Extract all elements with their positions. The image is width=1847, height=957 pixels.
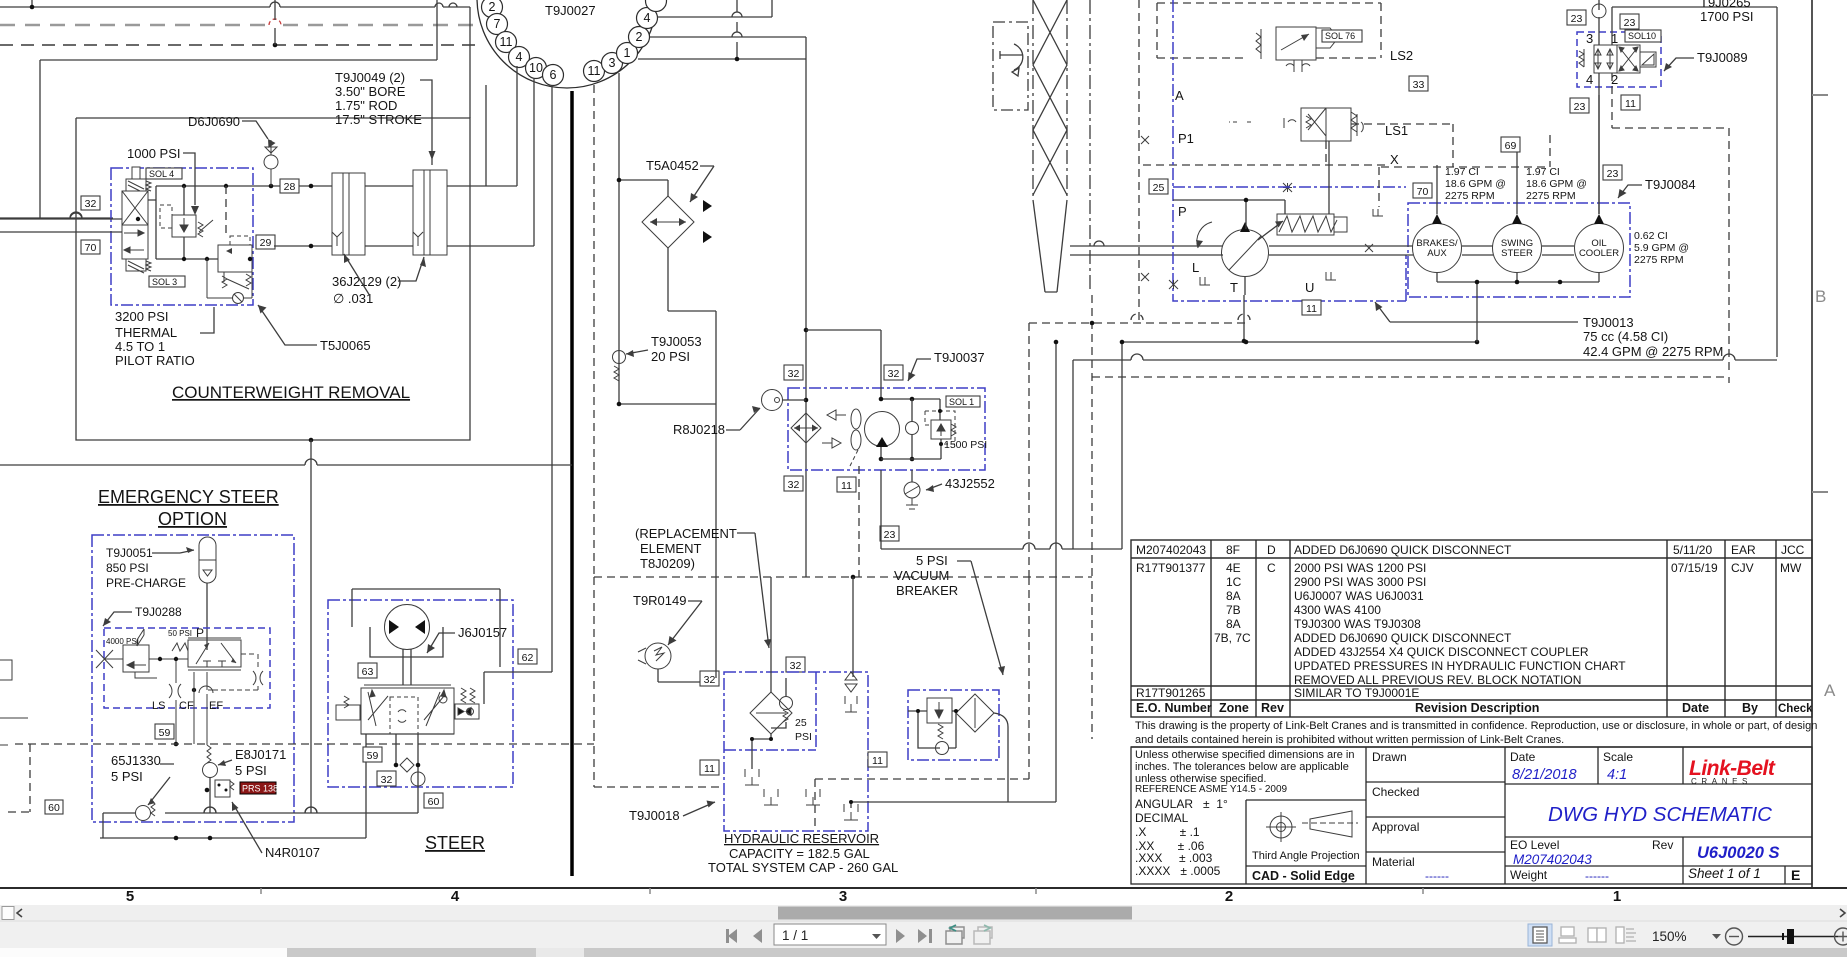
svg-text:T9J0037: T9J0037 [934,350,985,365]
svg-text:4: 4 [451,888,460,905]
svg-text:T9J0049 (2): T9J0049 (2) [335,70,405,85]
svg-text:2275 RPM: 2275 RPM [1634,254,1684,266]
svg-text:ADDED 43J2554 X4 QUICK DISCONN: ADDED 43J2554 X4 QUICK DISCONNECT COUPLE… [1294,645,1589,659]
svg-text:Material: Material [1372,855,1415,869]
svg-text:1700 PSI: 1700 PSI [1700,9,1754,24]
svg-text:N4R0107: N4R0107 [265,845,320,860]
svg-text:7B: 7B [1226,603,1241,617]
svg-text:8A: 8A [1226,617,1241,631]
svg-text:CF: CF [179,700,194,712]
svg-text:PRE-CHARGE: PRE-CHARGE [106,576,186,590]
svg-text:10: 10 [529,61,543,75]
svg-text:Date: Date [1682,701,1709,715]
svg-text:17.5" STROKE: 17.5" STROKE [335,112,422,127]
svg-text:42.4 GPM @ 2275 RPM: 42.4 GPM @ 2275 RPM [1583,344,1723,359]
svg-text:UPDATED PRESSURES IN HYDRAULIC: UPDATED PRESSURES IN HYDRAULIC FUNCTION … [1294,659,1626,673]
svg-text:LS: LS [152,700,165,712]
svg-text:D6J0690: D6J0690 [188,114,240,129]
svg-text:T9J0084: T9J0084 [1645,177,1696,192]
svg-text:T9J0288: T9J0288 [135,605,182,619]
svg-text:R17T901377: R17T901377 [1136,561,1206,575]
svg-text:Check: Check [1778,703,1813,715]
svg-text:Revision Description: Revision Description [1415,701,1539,715]
svg-text:Checked: Checked [1372,785,1419,799]
svg-text:5: 5 [126,888,134,905]
svg-text:LS2: LS2 [1390,48,1413,63]
svg-text:CAPACITY = 182.5 GAL: CAPACITY = 182.5 GAL [729,846,870,861]
svg-text:Rev: Rev [1652,838,1673,852]
svg-text:1C: 1C [1226,575,1242,589]
svg-text:.X ± .1: .X ± .1 [1135,825,1200,839]
svg-text:SOL 4: SOL 4 [149,169,174,179]
svg-text:Weight: Weight [1510,868,1548,882]
svg-text:T9R0149: T9R0149 [633,593,686,608]
svg-text:CRANES: CRANES [1691,777,1752,786]
svg-text:5.9 GPM @: 5.9 GPM @ [1634,242,1689,254]
svg-text:32: 32 [788,479,800,491]
svg-text:6: 6 [550,68,557,82]
svg-text:T9J0089: T9J0089 [1697,50,1748,65]
svg-text:ADDED D6J0690 QUICK DISCONNECT: ADDED D6J0690 QUICK DISCONNECT [1294,631,1512,645]
svg-text:4: 4 [516,50,523,64]
svg-text:DECIMAL: DECIMAL [1135,811,1189,825]
svg-text:18.6 GPM @: 18.6 GPM @ [1526,178,1587,190]
svg-text:11: 11 [841,480,852,492]
svg-text:5/11/20: 5/11/20 [1673,543,1712,557]
svg-text:75 cc (4.58 CI): 75 cc (4.58 CI) [1583,329,1668,344]
svg-text:11: 11 [872,755,883,767]
svg-text:4: 4 [644,11,651,25]
svg-text:------: ------ [1425,869,1449,883]
svg-text:Unless otherwise specified dim: Unless otherwise specified dimensions ar… [1135,749,1355,761]
svg-text:69: 69 [1505,140,1517,152]
svg-text:SOL 76: SOL 76 [1325,31,1355,41]
svg-text:(REPLACEMENT: (REPLACEMENT [635,526,737,541]
svg-text:11: 11 [704,763,715,775]
svg-text:PILOT RATIO: PILOT RATIO [115,353,195,368]
svg-text:ELEMENT: ELEMENT [640,541,701,556]
svg-text:C: C [1267,561,1276,575]
svg-text:23: 23 [884,529,896,541]
svg-text:43J2552: 43J2552 [945,476,995,491]
svg-text:1.75" ROD: 1.75" ROD [335,98,397,113]
svg-text:07/15/19: 07/15/19 [1671,561,1718,575]
svg-text:23: 23 [1624,17,1636,29]
svg-text:DWG HYD SCHEMATIC: DWG HYD SCHEMATIC [1548,803,1772,826]
svg-text:VACUUM: VACUUM [894,568,949,583]
svg-text:R17T901265: R17T901265 [1136,686,1206,700]
svg-text:COOLER: COOLER [1579,248,1619,259]
svg-text:Date: Date [1510,750,1536,764]
svg-text:3.50" BORE: 3.50" BORE [335,84,406,99]
svg-text:T9J0027: T9J0027 [545,3,596,18]
svg-text:STEER: STEER [1501,248,1533,259]
svg-text:STEER: STEER [425,833,485,853]
svg-text:1: 1 [624,46,631,60]
svg-text:EO Level: EO Level [1510,838,1559,852]
svg-text:33: 33 [1413,79,1425,91]
svg-text:D: D [1267,543,1276,557]
svg-text:60: 60 [428,796,440,808]
svg-text:62: 62 [522,652,534,664]
svg-text:2: 2 [1225,888,1233,905]
svg-text:3: 3 [839,888,847,905]
svg-text:BREAKER: BREAKER [896,583,958,598]
svg-text:70: 70 [1417,186,1429,198]
svg-text:Zone: Zone [1219,701,1249,715]
svg-text:T5J0065: T5J0065 [320,338,371,353]
svg-text:Sheet 1 of 1: Sheet 1 of 1 [1688,866,1761,881]
svg-text:TOTAL SYSTEM CAP - 260 GAL: TOTAL SYSTEM CAP - 260 GAL [708,860,898,875]
svg-text:E: E [1791,867,1800,883]
svg-text:70: 70 [85,242,97,254]
svg-text:Scale: Scale [1603,750,1633,764]
svg-text:23: 23 [1571,13,1583,25]
svg-text:Rev: Rev [1261,701,1284,715]
svg-text:2000 PSI WAS 1200 PSI: 2000 PSI WAS 1200 PSI [1294,561,1426,575]
svg-text:850 PSI: 850 PSI [106,561,149,575]
svg-text:HYDRAULIC RESERVOIR: HYDRAULIC RESERVOIR [724,831,879,846]
svg-text:T9J0300 WAS T9J0308: T9J0300 WAS T9J0308 [1294,617,1421,631]
svg-text:CAD - Solid Edge: CAD - Solid Edge [1252,869,1355,883]
svg-text:18.6 GPM @: 18.6 GPM @ [1445,178,1506,190]
svg-text:REMOVED ALL PREVIOUS REV. BLOC: REMOVED ALL PREVIOUS REV. BLOCK NOTATION [1294,673,1581,687]
svg-text:25: 25 [795,717,807,729]
svg-text:------: ------ [1585,869,1609,883]
svg-text:ANGULAR ± 1°: ANGULAR ± 1° [1135,797,1228,811]
svg-text:3: 3 [1586,31,1593,46]
svg-text:11: 11 [1625,98,1636,110]
svg-text:∅ .031: ∅ .031 [333,291,373,306]
svg-text:36J2129 (2): 36J2129 (2) [332,274,401,289]
svg-text:1000 PSI: 1000 PSI [127,146,181,161]
svg-text:U: U [1305,280,1314,295]
svg-text:T9J0053: T9J0053 [651,334,702,349]
svg-text:T9J0018: T9J0018 [629,808,680,823]
svg-text:MW: MW [1780,561,1802,575]
svg-text:1500 PSI: 1500 PSI [944,439,987,451]
svg-text:3200 PSI: 3200 PSI [115,309,169,324]
svg-text:SOL10: SOL10 [1628,31,1656,41]
svg-text:U6J0007 WAS U6J0031: U6J0007 WAS U6J0031 [1294,589,1424,603]
svg-text:U6J0020 S: U6J0020 S [1697,844,1780,862]
svg-text:and details contained herein i: and details contained herein is prohibit… [1135,734,1564,746]
svg-text:8A: 8A [1226,589,1241,603]
svg-text:11: 11 [588,64,601,78]
svg-text:1.97 CI: 1.97 CI [1526,166,1560,178]
svg-text:SIMILAR TO T9J0001E: SIMILAR TO T9J0001E [1294,686,1419,700]
svg-text:E8J0171: E8J0171 [235,747,286,762]
svg-text:150%: 150% [1652,929,1687,944]
svg-text:28: 28 [284,181,296,193]
svg-text:0.62 CI: 0.62 CI [1634,230,1668,242]
svg-text:7B, 7C: 7B, 7C [1214,631,1251,645]
svg-text:T9J0013: T9J0013 [1583,315,1634,330]
svg-text:4300 WAS 4100: 4300 WAS 4100 [1294,603,1381,617]
svg-text:EF: EF [209,700,223,712]
svg-text:11: 11 [1306,303,1317,315]
svg-text:32: 32 [85,198,97,210]
svg-text:AUX: AUX [1427,248,1447,259]
svg-text:63: 63 [362,666,374,678]
svg-text:8/21/2018: 8/21/2018 [1512,767,1577,783]
svg-text:.XXX ± .003: .XXX ± .003 [1135,851,1213,865]
svg-text:65J1330: 65J1330 [111,753,161,768]
svg-text:.XXXX ± .0005: .XXXX ± .0005 [1135,864,1221,878]
svg-text:50 PSI: 50 PSI [168,629,192,638]
svg-text:E.O. Number: E.O. Number [1136,701,1212,715]
svg-text:4E: 4E [1226,561,1241,575]
svg-text:3: 3 [609,56,616,70]
svg-text:1: 1 [1613,888,1621,905]
svg-text:T8J0209): T8J0209) [640,556,695,571]
svg-text:20 PSI: 20 PSI [651,349,690,364]
svg-text:CJV: CJV [1731,561,1754,575]
svg-text:A: A [1824,681,1836,700]
svg-text:T5A0452: T5A0452 [646,158,699,173]
svg-text:29: 29 [260,237,272,249]
svg-text:This drawing is the property o: This drawing is the property of Link-Bel… [1135,720,1817,732]
svg-text:A: A [1175,88,1184,103]
svg-text:2275 RPM: 2275 RPM [1445,190,1495,202]
svg-text:60: 60 [48,802,60,814]
svg-text:7: 7 [494,17,501,31]
svg-text:Third Angle Projection: Third Angle Projection [1252,850,1360,862]
svg-text:32: 32 [788,368,800,380]
svg-text:M207402043: M207402043 [1136,543,1206,557]
svg-text:23: 23 [1607,168,1619,180]
svg-text:25: 25 [1153,182,1165,194]
svg-text:1.97 CI: 1.97 CI [1445,166,1479,178]
svg-text:5 PSI: 5 PSI [916,553,948,568]
svg-text:5 PSI: 5 PSI [111,769,143,784]
svg-text:EAR: EAR [1731,543,1756,557]
svg-text:PRS 138: PRS 138 [242,784,278,794]
svg-text:11: 11 [500,35,513,49]
svg-text:X: X [1390,152,1399,167]
svg-text:2: 2 [489,0,496,14]
svg-text:2900 PSI WAS 3000 PSI: 2900 PSI WAS 3000 PSI [1294,575,1426,589]
svg-text:5 PSI: 5 PSI [235,763,267,778]
svg-text:L: L [1192,260,1199,275]
svg-text:B: B [1815,287,1826,306]
svg-text:8F: 8F [1226,543,1240,557]
svg-text:P: P [1178,204,1187,219]
svg-text:Approval: Approval [1372,820,1419,834]
svg-text:32: 32 [381,774,393,786]
svg-text:R8J0218: R8J0218 [673,422,725,437]
svg-text:23: 23 [1574,101,1586,113]
svg-text:4.5 TO 1: 4.5 TO 1 [115,339,165,354]
svg-text:OPTION: OPTION [158,509,227,529]
svg-text:COUNTERWEIGHT REMOVAL: COUNTERWEIGHT REMOVAL [172,383,410,402]
svg-text:EMERGENCY STEER: EMERGENCY STEER [98,487,279,507]
svg-text:JCC: JCC [1781,543,1805,557]
svg-text:32: 32 [888,368,900,380]
svg-text:32: 32 [704,674,716,686]
svg-text:59: 59 [367,750,379,762]
svg-text:SOL 3: SOL 3 [152,277,177,287]
svg-text:SOL 1: SOL 1 [949,397,974,407]
svg-text:PSI: PSI [795,731,812,743]
svg-text:32: 32 [790,660,802,672]
svg-text:By: By [1742,701,1758,715]
svg-text:1 / 1: 1 / 1 [782,928,808,943]
svg-text:M207402043: M207402043 [1513,852,1592,867]
svg-text:LS1: LS1 [1385,123,1408,138]
svg-text:59: 59 [159,727,171,739]
svg-text:T: T [1230,280,1238,295]
svg-text:P1: P1 [1178,131,1194,146]
svg-text:Drawn: Drawn [1372,750,1407,764]
svg-text:4: 4 [1586,72,1593,87]
svg-text:2: 2 [636,30,643,44]
svg-text:REFERENCE ASME Y14.5 - 2009: REFERENCE ASME Y14.5 - 2009 [1135,784,1288,795]
svg-text:4:1: 4:1 [1607,767,1627,783]
svg-text:THERMAL: THERMAL [115,325,177,340]
svg-text:T9J0051: T9J0051 [106,546,153,560]
svg-text:inches. The tolerances below: inches. The tolerances below are applica… [1135,761,1349,773]
svg-text:ADDED D6J0690 QUICK DISCONNECT: ADDED D6J0690 QUICK DISCONNECT [1294,543,1512,557]
svg-text:2275 RPM: 2275 RPM [1526,190,1576,202]
